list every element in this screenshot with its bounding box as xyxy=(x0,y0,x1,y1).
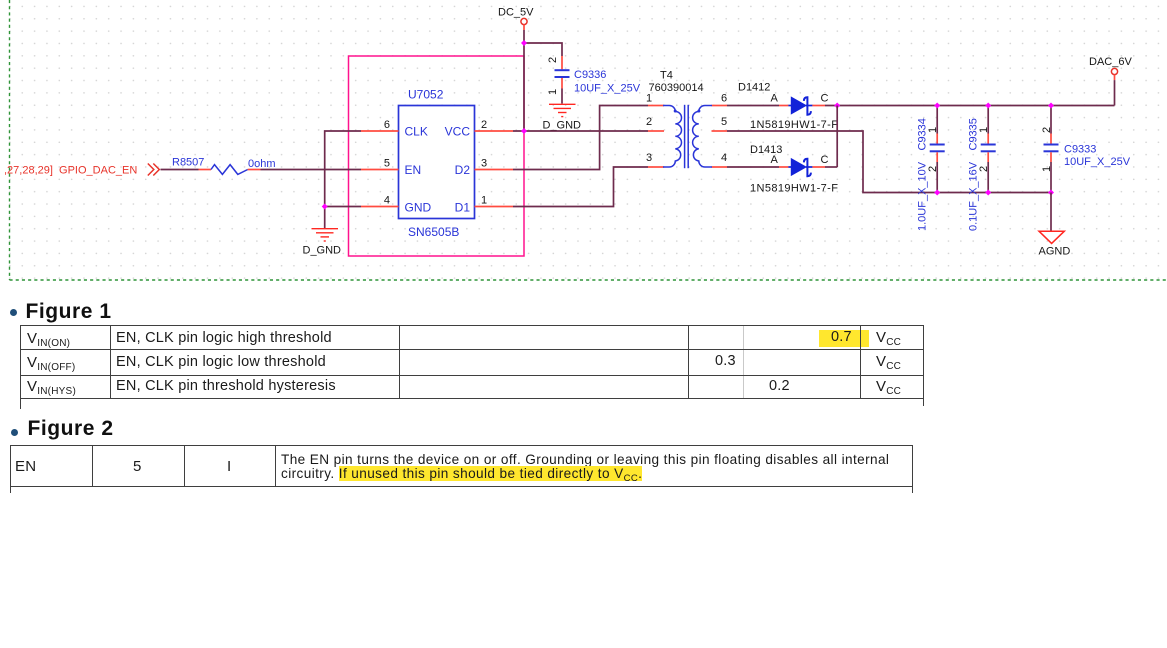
ground D_GND (left) xyxy=(312,229,339,241)
svg-text:1.0UF_X_10V: 1.0UF_X_10V xyxy=(917,161,929,231)
D1412 cathode pin xyxy=(812,105,825,107)
svg-text:,27,28,29] GPIO_DAC_EN: ,27,28,29] GPIO_DAC_EN xyxy=(4,165,137,177)
wire: CLK left then down xyxy=(325,131,361,207)
capacitor C9336 pin1 lead xyxy=(561,78,563,89)
junction diode cathodes xyxy=(834,103,840,109)
junction VCC / DC_5V xyxy=(521,128,527,134)
D1412 body (schottky) xyxy=(788,105,791,107)
svg-text:2: 2 xyxy=(927,166,939,172)
DC_5V pin stub xyxy=(523,25,525,30)
svg-text:DAC_6V: DAC_6V xyxy=(1089,56,1132,68)
U7052 pin stubs left xyxy=(361,131,399,207)
C9334 plates xyxy=(930,144,945,146)
svg-text:D_GND: D_GND xyxy=(543,120,582,132)
svg-text:D2: D2 xyxy=(455,163,471,177)
svg-text:T4: T4 xyxy=(660,70,673,82)
wire: R8507 to EN xyxy=(261,169,362,171)
svg-text:1: 1 xyxy=(1041,166,1053,172)
svg-text:R8507: R8507 xyxy=(172,157,204,169)
TABLE1 xyxy=(20,325,923,326)
wire: D1 to transformer pin3 xyxy=(513,167,648,207)
svg-text:6: 6 xyxy=(384,119,390,131)
T4 core xyxy=(684,105,686,168)
junction at DC_5V branch xyxy=(521,40,527,46)
svg-text:0.1UF_X_16V: 0.1UF_X_16V xyxy=(968,161,980,231)
svg-text:10UF_X_25V: 10UF_X_25V xyxy=(574,83,641,95)
svg-text:1: 1 xyxy=(927,127,939,133)
svg-text:1: 1 xyxy=(646,93,652,105)
junction C9335 top xyxy=(985,103,991,109)
off-page connector chevron xyxy=(148,164,160,176)
svg-text:A: A xyxy=(771,93,779,105)
resistor R8507 xyxy=(211,165,248,175)
R8507 left pin xyxy=(199,169,212,171)
svg-text:1N5819HW1-7-F: 1N5819HW1-7-F xyxy=(750,183,838,195)
junction C9333 top xyxy=(1048,103,1054,109)
svg-text:AGND: AGND xyxy=(1039,246,1071,258)
svg-text:D1412: D1412 xyxy=(738,82,770,94)
T4 secondary winding xyxy=(693,106,712,168)
svg-text:2: 2 xyxy=(646,116,652,128)
svg-text:4: 4 xyxy=(721,152,727,164)
capacitor C9336 pin2 lead xyxy=(561,56,563,69)
power symbol DAC_6V xyxy=(1111,68,1117,74)
svg-text:D_GND: D_GND xyxy=(303,245,342,257)
svg-text:D1: D1 xyxy=(455,201,471,215)
capacitor C9333 top lead xyxy=(1050,106,1052,134)
wire: GND pin to junction xyxy=(325,206,361,208)
schematic SVG layer xyxy=(0,0,1167,292)
svg-text:C: C xyxy=(821,93,829,105)
svg-text:DC_5V: DC_5V xyxy=(498,7,534,19)
power symbol DC_5V xyxy=(521,18,527,24)
wire: junction to C9336 top xyxy=(524,43,562,56)
wire: chevron to R8507 xyxy=(161,169,199,171)
capacitor C9334 top lead xyxy=(936,106,938,134)
svg-text:C9335: C9335 xyxy=(968,118,980,150)
svg-text:U7052: U7052 xyxy=(408,88,444,102)
wire: C9333 bottom to AGND xyxy=(1050,193,1052,232)
wire: cathodes junction down to D1413 xyxy=(836,106,838,168)
svg-text:3: 3 xyxy=(646,152,652,164)
T4 primary winding xyxy=(663,106,682,168)
wire: junction down to D_GND xyxy=(324,207,326,229)
D1413 body (schottky) xyxy=(788,166,791,168)
C9333 bottom lead xyxy=(1050,152,1052,162)
junction C9334 bottom xyxy=(934,190,940,196)
svg-text:4: 4 xyxy=(384,195,390,207)
C9335 plates xyxy=(981,144,996,146)
IC U7052 body xyxy=(399,106,475,219)
schematic border (green dashed) left xyxy=(9,0,11,280)
T4 polarity dot primary xyxy=(674,110,677,113)
svg-text:A: A xyxy=(771,154,779,166)
D1413 cathode pin xyxy=(812,166,825,168)
svg-text:VCC: VCC xyxy=(445,125,471,139)
figure 2 heading bullet xyxy=(11,429,18,436)
D1413 anode pin xyxy=(779,166,788,168)
svg-text:5: 5 xyxy=(384,158,390,170)
DAC_6V pin stub xyxy=(1114,75,1116,81)
svg-text:C9336: C9336 xyxy=(574,69,606,81)
junction C9334 top xyxy=(934,103,940,109)
svg-text:1: 1 xyxy=(547,89,559,95)
wire: T4 pin6 to D1412 anode xyxy=(727,105,779,107)
wire: D1413 cathode to junction riser xyxy=(825,166,837,168)
capacitor C9335 top lead xyxy=(987,106,989,134)
wire: DAC_6V drop xyxy=(1114,80,1116,105)
wire: T4 pin4 to D1413 anode xyxy=(727,166,779,168)
svg-text:0ohm: 0ohm xyxy=(248,158,276,170)
TABLE2 xyxy=(10,445,913,446)
svg-text:C9334: C9334 xyxy=(917,118,929,150)
wire: C9336 to ground xyxy=(561,89,563,104)
figure 2 heading xyxy=(28,417,114,441)
svg-text:1N5819HW1-7-F: 1N5819HW1-7-F xyxy=(750,119,838,131)
hierarchy block box around U7052 (pink) xyxy=(349,56,525,256)
svg-text:CLK: CLK xyxy=(405,125,428,139)
figure 1 heading bullet xyxy=(10,309,17,316)
wire: VCC to transformer pin2 xyxy=(513,130,648,132)
svg-text:3: 3 xyxy=(481,158,487,170)
svg-text:2: 2 xyxy=(1041,127,1053,133)
svg-text:2: 2 xyxy=(481,119,487,131)
U7052 pin stubs right xyxy=(475,131,514,207)
junction C9333 bottom xyxy=(1048,190,1054,196)
wire: D1412 cathode to output rail xyxy=(825,105,1115,107)
svg-text:SN6505B: SN6505B xyxy=(408,225,459,239)
figure 1 heading xyxy=(26,300,112,324)
svg-text:1: 1 xyxy=(978,127,990,133)
svg-text:C9333: C9333 xyxy=(1064,144,1096,156)
ground D_GND (C9336) xyxy=(549,104,576,116)
svg-text:760390014: 760390014 xyxy=(649,82,704,94)
svg-text:5: 5 xyxy=(721,116,727,128)
junction C9335 bottom xyxy=(985,190,991,196)
ground AGND xyxy=(1039,231,1064,243)
svg-text:EN: EN xyxy=(405,163,422,177)
R8507 right pin xyxy=(248,169,261,171)
svg-text:C: C xyxy=(821,154,829,166)
wire: DC_5V rail down to VCC rail xyxy=(523,43,525,131)
D1412 anode pin xyxy=(779,105,788,107)
svg-text:6: 6 xyxy=(721,93,727,105)
junction GND/CLK xyxy=(322,204,328,210)
svg-text:GND: GND xyxy=(405,201,432,215)
svg-text:10UF_X_25V: 10UF_X_25V xyxy=(1064,156,1131,168)
wire: T4 pin5 center tap to return rail xyxy=(727,131,1051,193)
T4 pin stubs right xyxy=(712,106,728,168)
C9335 bottom lead xyxy=(987,152,989,162)
svg-text:2: 2 xyxy=(978,166,990,172)
C9334 bottom lead xyxy=(936,152,938,162)
svg-text:2: 2 xyxy=(547,57,559,63)
svg-text:1: 1 xyxy=(481,195,487,207)
T4 polarity dot secondary xyxy=(697,110,700,113)
capacitor C9336 plates xyxy=(555,69,570,71)
T4 pin stubs left xyxy=(648,106,664,168)
wire: DC_5V down to junction xyxy=(523,30,525,43)
wire: D2 to transformer pin1 xyxy=(513,106,648,170)
C9333 plates xyxy=(1044,144,1059,146)
schematic border bottom xyxy=(10,279,1167,281)
